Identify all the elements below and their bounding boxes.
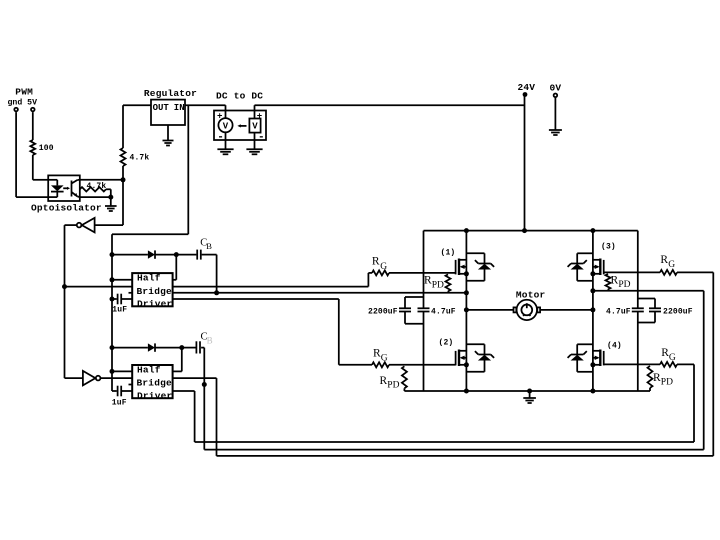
svg-text:R: R: [372, 256, 380, 268]
diode D1 bootstrap: [112, 250, 176, 258]
wire right frame lower: [637, 312, 639, 392]
wire pullup to collector node: [122, 166, 124, 180]
wire left frame lower: [423, 312, 425, 392]
resistor 100: [30, 140, 53, 155]
svg-text:Bridge: Bridge: [137, 286, 173, 297]
node rail-drain1: [464, 228, 469, 233]
capacitor C_B 1: [176, 238, 216, 260]
svg-text:(2): (2): [439, 338, 454, 347]
capacitor 4.7uF left: [418, 307, 456, 316]
svg-text:Optoisolator: Optoisolator: [31, 203, 102, 214]
node C_B1 phase tap: [214, 290, 219, 295]
diode flyback Q4: [568, 344, 593, 372]
op-amp U6 Half Bridge Driver 1: [129, 273, 173, 310]
svg-text:PD: PD: [387, 380, 399, 390]
motor M1: [514, 289, 546, 320]
svg-text:+: +: [257, 111, 262, 121]
svg-text:Driver: Driver: [137, 390, 173, 401]
svg-text:PWM: PWM: [15, 87, 33, 98]
svg-text:G: G: [669, 353, 676, 363]
svg-text:Motor: Motor: [516, 289, 546, 300]
wire emitter to ground: [80, 196, 111, 198]
svg-text:PD: PD: [432, 281, 444, 291]
node bootstrap junction1: [174, 252, 179, 257]
node emitter junction: [108, 195, 113, 200]
terminal gnd: [14, 108, 18, 112]
svg-text:OUT: OUT: [153, 103, 170, 113]
svg-text:R: R: [380, 375, 388, 387]
node driver1 input junction: [62, 284, 67, 289]
node source3: [590, 271, 595, 276]
wire VS2 wrap to right phase: [204, 291, 703, 450]
svg-text:IN: IN: [174, 103, 185, 113]
wire regulator OUT to 4.7k pullup: [123, 105, 151, 148]
inverter U4: [77, 218, 95, 233]
svg-text:Bridge: Bridge: [137, 378, 173, 389]
svg-text:Driver: Driver: [137, 298, 173, 309]
wire gnd to optoisolator cathode: [16, 112, 48, 197]
terminal 24V: [518, 82, 536, 97]
diode flyback Q2: [466, 344, 494, 372]
node motor right: [590, 307, 595, 312]
svg-text:R: R: [611, 274, 619, 286]
svg-text:24V: 24V: [518, 82, 536, 93]
wire DC-DC to 24V rail: [255, 104, 525, 106]
resistor 4.7k base: [80, 182, 107, 192]
resistor 4.7k pullup: [121, 148, 150, 166]
svg-text:(3): (3): [601, 243, 616, 252]
svg-text:V: V: [252, 122, 258, 132]
node rail-24V: [522, 228, 527, 233]
svg-text:R: R: [653, 372, 661, 384]
diode D2 bootstrap: [112, 343, 182, 351]
wire 24V down to bridge: [524, 95, 526, 231]
node source4: [590, 362, 595, 367]
svg-text:(1): (1): [441, 249, 456, 258]
capacitor 2200uF left: [368, 297, 424, 324]
svg-text:B: B: [206, 241, 212, 251]
diode flyback Q1: [466, 253, 494, 280]
svg-text:G: G: [380, 262, 387, 272]
inverter U5: [83, 371, 100, 386]
transistor Q3: [593, 243, 616, 276]
resistor R_G 1: [372, 256, 389, 276]
svg-text:(4): (4): [607, 342, 622, 351]
svg-text:DC to DC: DC to DC: [216, 91, 263, 102]
node rail-ground: [527, 389, 532, 394]
wire LO2 wrap to gate Q4: [173, 364, 694, 442]
wire collector to pullup node: [80, 179, 123, 181]
transistor Q4: [593, 342, 622, 366]
svg-text:PD: PD: [618, 280, 630, 290]
wire right frame upper: [637, 231, 639, 309]
svg-text:V: V: [223, 122, 229, 132]
wire bottom rail: [404, 390, 650, 392]
svg-text:1uF: 1uF: [112, 399, 127, 408]
wire to driver1 IN: [65, 286, 133, 288]
wire VS1 phase: [173, 292, 467, 294]
svg-text:2200uF: 2200uF: [368, 307, 398, 316]
resistor R_PD 2: [380, 366, 407, 391]
svg-text:B: B: [207, 335, 213, 345]
resistor R_G 2: [372, 348, 389, 368]
svg-text:-: -: [258, 131, 265, 143]
wire right phase trunk: [592, 231, 594, 391]
node Vcc driver1: [110, 252, 115, 257]
svg-text:PD: PD: [661, 378, 673, 388]
wire left phase trunk: [465, 231, 467, 391]
svg-text:-: -: [217, 131, 224, 143]
node rail-source4: [590, 389, 595, 394]
node source1: [464, 271, 469, 276]
ground 0V: [549, 98, 562, 135]
wire R_G3 to gate: [604, 271, 660, 273]
node VS1: [464, 290, 469, 295]
wire motor right: [540, 309, 593, 311]
svg-text:gnd 5V: gnd 5V: [8, 97, 38, 107]
ground H-bridge: [523, 391, 536, 403]
wire 24V top rail: [424, 230, 638, 232]
svg-text:4.7uF: 4.7uF: [431, 307, 456, 316]
wire C_B1 to phase: [216, 255, 218, 293]
resistor R_G 3: [660, 254, 677, 275]
capacitor 1uF driver2: [112, 386, 132, 408]
capacitor 2200uF right: [638, 299, 693, 323]
resistor R_PD 3: [606, 274, 631, 291]
svg-text:Regulator: Regulator: [144, 88, 197, 99]
node bootstrap junction2: [179, 345, 184, 350]
ground DC-DC right: [246, 149, 262, 154]
svg-text:0V: 0V: [550, 83, 562, 94]
node motor left: [464, 307, 469, 312]
wire R_G1 to gate: [389, 272, 456, 274]
wire LO1 to gate Q2: [173, 299, 372, 365]
svg-text:100: 100: [39, 144, 54, 153]
wire collector node to inverter1 input: [95, 180, 123, 225]
node PWM input terminals: [8, 87, 38, 108]
node collector junction: [121, 177, 126, 182]
node source2: [464, 362, 469, 367]
wire R_G2 to gate: [389, 364, 456, 366]
wire 5V to resistor: [32, 112, 34, 140]
resistor R_PD 4: [648, 366, 674, 391]
capacitor C_B 2: [182, 332, 213, 354]
wire 12V supply rail down: [112, 105, 188, 391]
node VS2 right: [590, 288, 595, 293]
node rail-source2: [464, 389, 469, 394]
wire resistor to optoisolator anode: [33, 155, 48, 180]
svg-text:4.7k: 4.7k: [87, 182, 107, 191]
op-amp U3 DC to DC converter: [214, 91, 266, 150]
wire R_G4 to gate: [604, 363, 660, 365]
ground DC-DC left: [217, 149, 233, 154]
wire HO1 to gate Q1: [173, 273, 372, 287]
svg-text:G: G: [381, 354, 388, 364]
svg-text:Half: Half: [137, 364, 161, 375]
svg-text:R: R: [660, 254, 668, 266]
svg-text:Half: Half: [137, 273, 161, 284]
wire Vcc pin driver2: [112, 370, 132, 372]
capacitor 1uF driver1: [110, 294, 133, 315]
transistor Q1: [441, 249, 467, 276]
svg-text:4.7k: 4.7k: [130, 154, 150, 163]
diode flyback Q3: [568, 253, 593, 280]
node rail-drain3: [590, 228, 595, 233]
svg-text:+: +: [217, 111, 222, 121]
wire inverter2 output to driver2 IN: [100, 377, 132, 379]
node Vcc driver2: [110, 345, 115, 350]
wire HO2 wrap to gate Q3: [173, 272, 714, 456]
wire regulator IN to DC-DC: [185, 104, 226, 106]
op-amp U2 Regulator: [144, 88, 197, 125]
wire left frame upper: [423, 231, 425, 309]
svg-text:G: G: [668, 260, 675, 270]
transistor Q2: [439, 338, 467, 366]
wire motor left: [466, 309, 513, 311]
op-amp U7 Half Bridge Driver 2: [129, 364, 173, 401]
terminal 5V: [31, 108, 35, 112]
wire boot pin driver1: [173, 255, 177, 280]
node C_B2 tap: [202, 382, 207, 387]
resistor R_G 4: [660, 347, 677, 367]
wire Vcc pin driver1: [112, 279, 132, 281]
wire C_B2 to VS2: [203, 348, 205, 385]
wire boot pin driver2: [173, 348, 182, 372]
terminal 0V: [550, 83, 562, 98]
ground optoisolator: [105, 197, 117, 211]
wire inverter1 output down: [65, 225, 77, 378]
svg-text:1uF: 1uF: [112, 306, 127, 315]
capacitor 4.7uF right: [606, 307, 644, 316]
wire to inverter2 input: [65, 377, 83, 379]
svg-text:2200uF: 2200uF: [663, 307, 693, 316]
ground regulator: [163, 125, 174, 146]
svg-text:4.7uF: 4.7uF: [606, 307, 631, 316]
resistor R_PD 1: [424, 274, 451, 292]
optoisolator U1: [31, 175, 102, 213]
wire base resistor to emitter node: [106, 189, 111, 197]
